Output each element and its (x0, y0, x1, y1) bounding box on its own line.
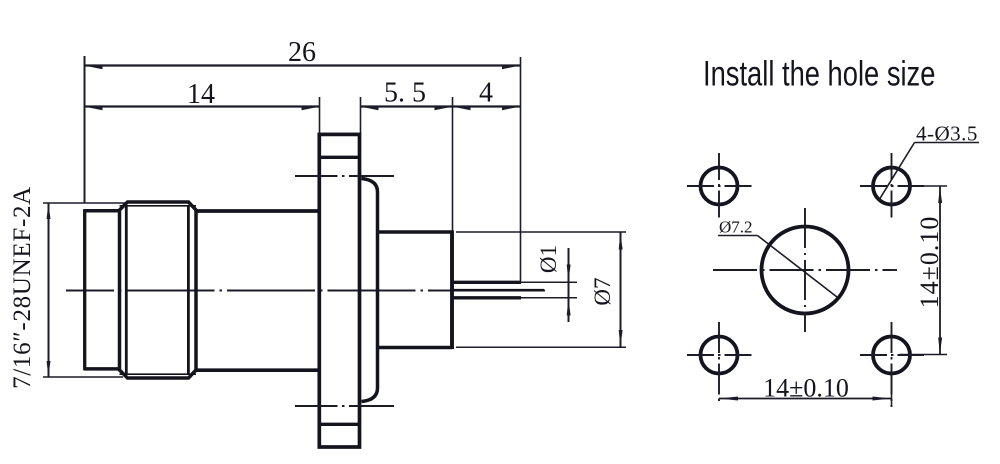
mounting hole top-left centerlines (687, 185, 755, 187)
dia1 arrow top (567, 265, 571, 282)
dimension 5.5 line (360, 105, 453, 107)
contact pin bottom (452, 296, 521, 299)
main body bottom (196, 368, 319, 372)
center hole vertical centerline (804, 208, 806, 332)
bottom 14 dimension line (719, 398, 892, 400)
center hole horizontal centerline (713, 269, 897, 271)
4-dia3.5 leader diagonal (879, 143, 915, 201)
rear cylinder bottom (377, 346, 452, 350)
center hole circle (762, 227, 849, 314)
svg-text:Ø7.2: Ø7.2 (719, 218, 753, 237)
right 14 arrow top (938, 186, 942, 203)
svg-text:Ø1: Ø1 (536, 245, 561, 273)
dia7 extension bottom (456, 346, 626, 348)
right 14 dimension extension top (907, 185, 947, 187)
thread dimension arrow bottom (47, 361, 51, 377)
rear cylinder top (377, 230, 452, 234)
thread inner vertical left (125, 206, 128, 374)
dimension 5.5 arrow right (435, 106, 453, 110)
svg-text:5. 5: 5. 5 (384, 78, 426, 109)
flange hole line top (319, 156, 359, 159)
right 14 dimension line (939, 186, 941, 355)
dimension 26 extension line right (520, 57, 522, 281)
thread dimension extension bottom (43, 376, 123, 378)
rear cylinder right edge (450, 231, 454, 350)
main body top (196, 209, 319, 213)
dimension 4 extension line left (452, 97, 454, 231)
4-dia3.5 leader shelf (915, 142, 980, 144)
dia7 arrow bottom (619, 330, 623, 347)
bottom 14 extension right (891, 372, 893, 407)
thread inner vertical right (187, 206, 190, 374)
thread crest line bottom (120, 373, 197, 375)
contact pin top (452, 281, 521, 284)
rear small cylinder left edge (83, 209, 86, 370)
bottom 14 arrow right (873, 397, 892, 401)
flange outline (319, 134, 359, 447)
dimension 26 arrow left (85, 65, 103, 69)
mounting hole top-right centerlines (860, 185, 924, 187)
dimension 4 arrow right (502, 106, 520, 110)
right 14 arrow bottom (938, 338, 942, 355)
svg-text:4: 4 (479, 78, 493, 109)
svg-text:26: 26 (288, 37, 316, 68)
dimension 26 arrow right (502, 65, 520, 69)
dimension 4 line (453, 105, 521, 107)
dia1 dimension line (568, 248, 570, 322)
dimension 14 arrow right (302, 106, 320, 110)
svg-text:Install the hole size: Install the hole size (703, 53, 935, 93)
thread section outline (120, 202, 197, 378)
thread crest line top (120, 205, 197, 207)
dia7 dimension line (620, 232, 622, 347)
dimension 26 line (84, 64, 521, 66)
mounting hole bottom-right centerlines (860, 354, 924, 356)
svg-text:Ø7: Ø7 (590, 278, 615, 306)
svg-text:14: 14 (187, 79, 215, 110)
dimension 4 arrow left (453, 106, 471, 110)
dimension 5.5 extension line left (360, 97, 362, 134)
flange hole centerline top (295, 175, 395, 177)
thread dimension line vertical (48, 203, 50, 377)
main centerline (66, 290, 545, 292)
dia7.2 leader shelf (718, 235, 758, 237)
dimension 5.5 arrow left (361, 106, 379, 110)
dia7.2 leader diagonal (758, 236, 838, 298)
dimension 14 line (84, 105, 320, 107)
mounting hole bottom-right (873, 337, 910, 374)
rear small cylinder bottom (84, 367, 120, 371)
dimension 14 extension line right (319, 97, 321, 134)
thread dimension extension top (43, 202, 127, 204)
right 14 dimension extension bottom (900, 354, 947, 356)
flange hole centerline bottom (295, 405, 395, 407)
mounting hole top-left (701, 168, 738, 205)
dia7 extension top (456, 231, 626, 233)
svg-text:7/16″-28UNEF-2A: 7/16″-28UNEF-2A (9, 186, 36, 389)
rear small cylinder top (84, 209, 120, 213)
dia7 arrow top (619, 232, 623, 249)
flange hole line bottom (319, 423, 359, 426)
dimension 14 arrow left (85, 106, 103, 110)
center conductor line (452, 289, 544, 292)
dia1 extension top (521, 281, 577, 283)
mounting hole top-right (873, 168, 910, 205)
boss behind flange (362, 179, 378, 402)
mounting hole bottom-left centerlines (687, 354, 755, 356)
svg-text:14±0.10: 14±0.10 (915, 216, 944, 309)
thread dimension arrow top (47, 203, 51, 219)
bottom 14 arrow left (719, 397, 738, 401)
dimension 26 extension line left (84, 56, 86, 203)
mounting hole bottom-left (701, 337, 738, 374)
dia1 arrow bottom (567, 298, 571, 315)
svg-text:14±0.10: 14±0.10 (763, 374, 849, 403)
dia1 extension bottom (521, 297, 577, 299)
